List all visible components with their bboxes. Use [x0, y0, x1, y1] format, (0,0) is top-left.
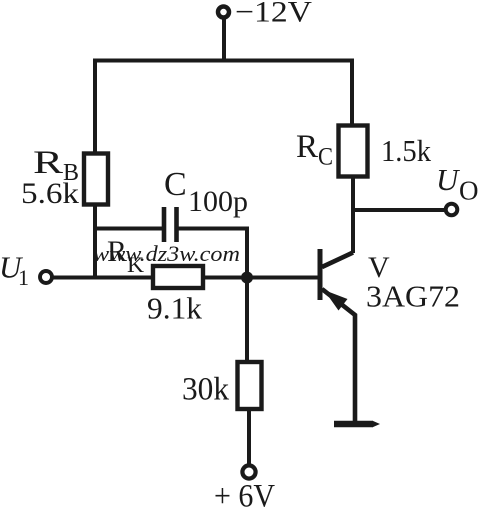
transistor emitter — [322, 289, 355, 422]
wire RC to collector — [351, 177, 355, 254]
svg-text:100p: 100p — [188, 185, 248, 218]
transistor collector — [322, 253, 353, 268]
wire output tap — [353, 208, 446, 212]
svg-text:R: R — [33, 145, 63, 181]
svg-text:30k: 30k — [182, 372, 229, 408]
svg-text:+ 6V: + 6V — [214, 479, 275, 508]
svg-text:9.1k: 9.1k — [147, 291, 203, 326]
wire branch to capacitor — [93, 227, 162, 231]
svg-text:5.6k: 5.6k — [21, 177, 79, 210]
wire node down to 30k — [245, 278, 249, 363]
transistor emitter arrow — [324, 290, 348, 311]
terminal +6V — [242, 465, 255, 478]
svg-text:−12V: −12V — [235, 0, 312, 29]
svg-text:R: R — [296, 129, 318, 165]
wire RB bottom down to input row — [93, 205, 97, 278]
wire top rail — [93, 59, 352, 63]
svg-text:1.5k: 1.5k — [381, 133, 431, 168]
wire RK to transistor base — [203, 276, 319, 280]
svg-text:K: K — [127, 252, 144, 277]
svg-text:U: U — [436, 162, 461, 197]
terminal UO — [446, 204, 458, 216]
svg-text:C: C — [164, 166, 187, 203]
terminal U1 — [40, 271, 52, 283]
wire 30k to +6V terminal — [247, 409, 251, 464]
resistor RB — [84, 154, 108, 205]
ground — [334, 421, 372, 428]
svg-text:R: R — [107, 235, 127, 268]
resistor RK — [153, 266, 203, 288]
node junction dot — [241, 272, 253, 284]
wire right vertical to RC — [350, 59, 354, 126]
wire input to RK — [53, 276, 154, 280]
svg-text:1: 1 — [18, 265, 29, 290]
resistor 30k — [238, 362, 262, 409]
wire left vertical to RB — [93, 59, 97, 154]
capacitor C — [162, 207, 167, 242]
svg-text:O: O — [459, 176, 478, 206]
svg-text:C: C — [318, 144, 333, 171]
resistor RC — [339, 126, 368, 177]
wire capacitor to node column — [179, 229, 248, 273]
wire from -12V terminal — [222, 18, 226, 62]
svg-text:3AG72: 3AG72 — [366, 279, 460, 314]
terminal -12V — [218, 7, 229, 18]
transistor V base bar — [318, 249, 323, 300]
